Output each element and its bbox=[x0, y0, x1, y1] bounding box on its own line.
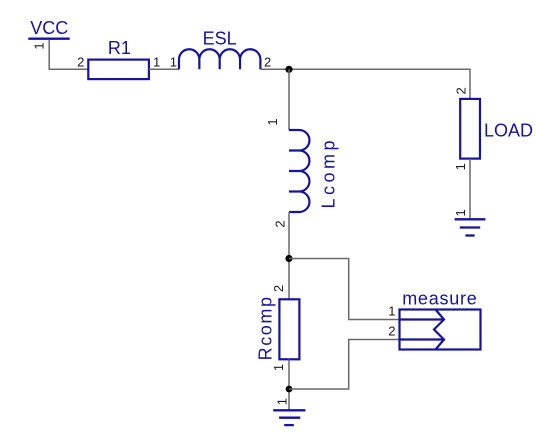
inductor Lcomp bbox=[289, 130, 339, 212]
resistor Rcomp bbox=[255, 295, 299, 360]
ground symbol under Rcomp bbox=[273, 410, 305, 425]
wire R1 pin1 to ESL pin1 bbox=[149, 68, 179, 70]
wire top node down to Lcomp pin1 bbox=[288, 69, 290, 130]
svg-text:1: 1 bbox=[453, 163, 468, 170]
pin 2 of Lcomp bbox=[272, 220, 287, 227]
pin 1 of VCC bbox=[32, 42, 47, 49]
svg-text:1: 1 bbox=[453, 209, 468, 216]
svg-text:R1: R1 bbox=[108, 38, 131, 58]
svg-text:2: 2 bbox=[271, 285, 286, 292]
junction top node bbox=[285, 66, 292, 73]
inductor ESL bbox=[179, 29, 260, 70]
junction mid node bbox=[285, 255, 292, 262]
pin 1 of Lcomp bbox=[265, 118, 280, 125]
svg-text:2: 2 bbox=[264, 54, 271, 69]
pin 1 of bottom ground bbox=[274, 398, 289, 405]
junction bottom node bbox=[286, 386, 293, 393]
svg-text:LOAD: LOAD bbox=[484, 121, 533, 141]
wire LOAD pin1 to ground bbox=[469, 159, 471, 220]
svg-text:1: 1 bbox=[170, 54, 177, 69]
svg-text:2: 2 bbox=[388, 323, 395, 338]
svg-text:1: 1 bbox=[265, 118, 280, 125]
pin 2 of ESL bbox=[264, 54, 271, 69]
wire mid node to measure pin1 bbox=[289, 259, 400, 320]
pin 2 of R1 bbox=[77, 54, 84, 69]
pin 1 of ESL bbox=[170, 54, 177, 69]
pin 2 of Rcomp bbox=[271, 285, 286, 292]
wire ESL pin2 to top node and to LOAD bbox=[260, 69, 470, 99]
resistor R1 bbox=[88, 38, 149, 79]
pin 1 of LOAD ground bbox=[453, 209, 468, 216]
svg-text:1: 1 bbox=[388, 304, 395, 319]
svg-text:Lcomp: Lcomp bbox=[319, 137, 339, 209]
wire bottom node to measure pin2 bbox=[289, 340, 400, 390]
svg-text:1: 1 bbox=[153, 54, 160, 69]
wire Rcomp pin1 to bottom node and ground bbox=[288, 359, 290, 410]
svg-text:Rcomp: Rcomp bbox=[255, 295, 275, 360]
pin 2 of measure bbox=[388, 323, 395, 338]
svg-text:1: 1 bbox=[274, 398, 289, 405]
svg-text:ESL: ESL bbox=[203, 29, 237, 49]
svg-text:2: 2 bbox=[77, 54, 84, 69]
power symbol VCC bbox=[28, 18, 69, 39]
pin 2 of LOAD bbox=[453, 87, 468, 94]
wire Lcomp pin2 to mid node and Rcomp pin2 bbox=[288, 212, 290, 299]
resistor LOAD bbox=[460, 99, 533, 159]
pin 1 of Rcomp bbox=[271, 364, 286, 371]
svg-text:VCC: VCC bbox=[30, 18, 68, 38]
connector U1 measure bbox=[400, 289, 481, 350]
svg-text:measure: measure bbox=[402, 289, 477, 309]
pin 1 of R1 bbox=[153, 54, 160, 69]
svg-text:1: 1 bbox=[32, 42, 47, 49]
pin 1 of LOAD bbox=[453, 163, 468, 170]
ground symbol under LOAD bbox=[455, 219, 486, 235]
svg-text:2: 2 bbox=[272, 220, 287, 227]
pin 1 of measure bbox=[388, 304, 395, 319]
svg-text:2: 2 bbox=[453, 87, 468, 94]
wire from VCC down and right to R1 pin 2 bbox=[49, 40, 88, 70]
svg-text:1: 1 bbox=[271, 364, 286, 371]
